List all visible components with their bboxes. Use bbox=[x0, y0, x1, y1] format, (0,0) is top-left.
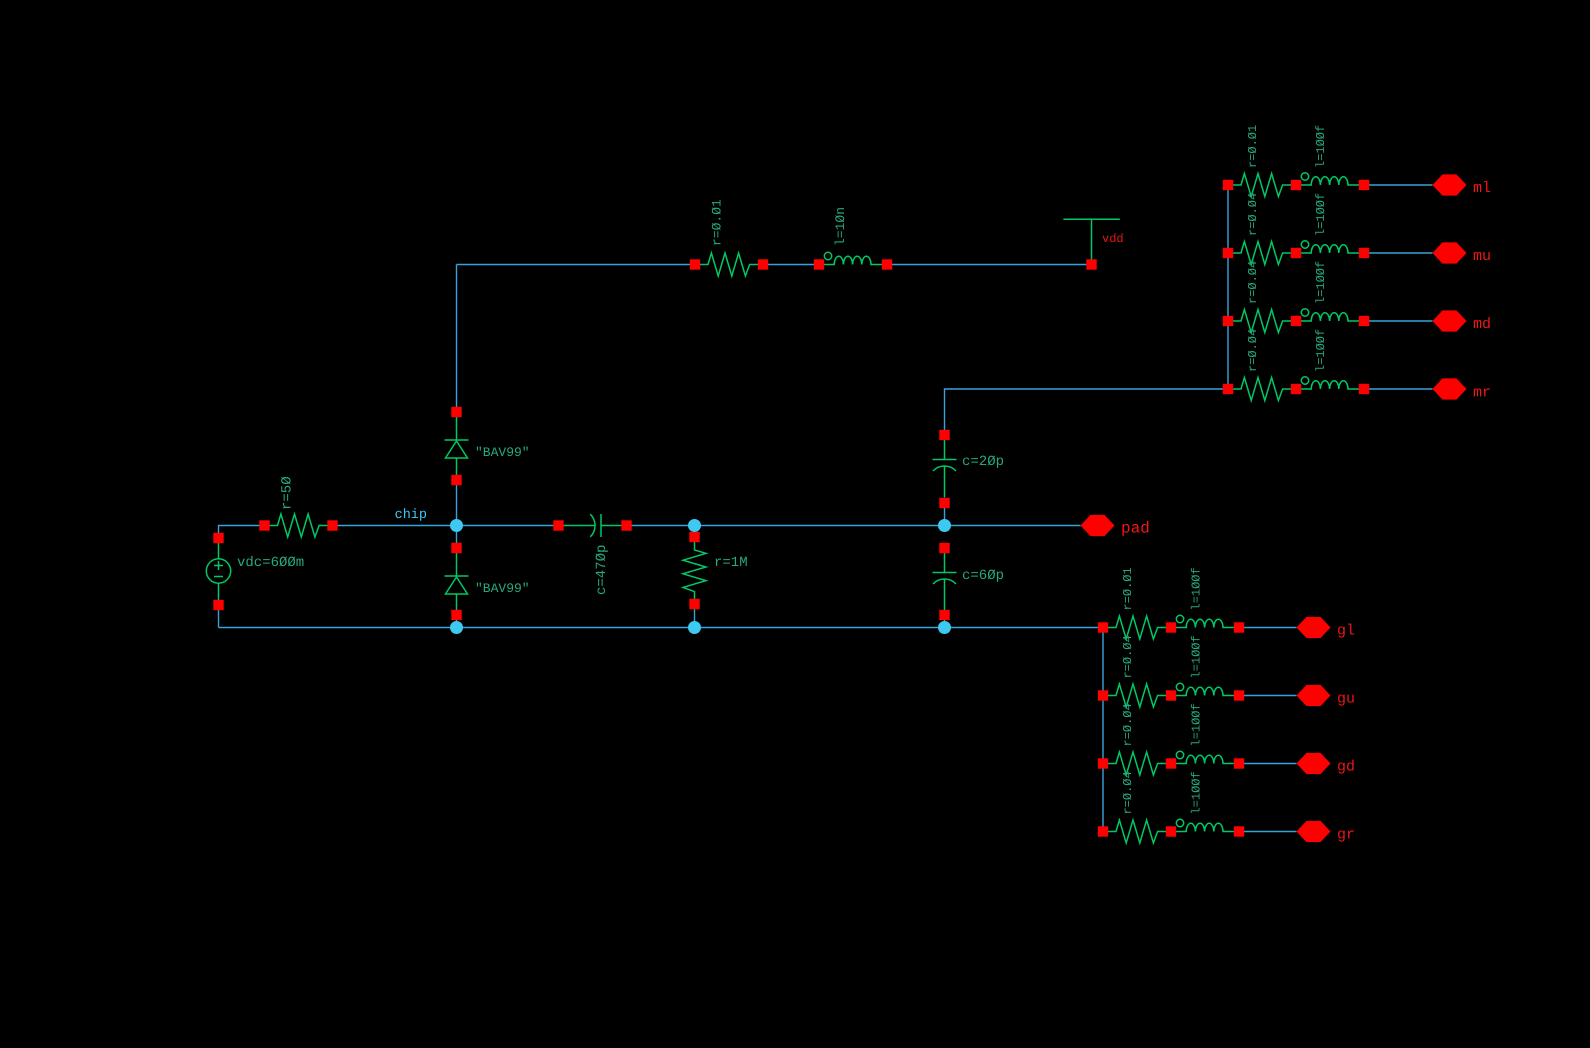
pin c470 left bbox=[553, 520, 563, 530]
pin diode2 top bbox=[451, 543, 461, 553]
pin mu right bbox=[1359, 248, 1369, 258]
pin gd mid bbox=[1166, 758, 1176, 768]
svg-text:c=47Øp: c=47Øp bbox=[594, 545, 610, 595]
svg-text:r=5Ø: r=5Ø bbox=[280, 476, 296, 510]
port gl bbox=[1297, 617, 1331, 638]
pin gd bus bbox=[1098, 758, 1108, 768]
svg-text:l=1ØØf: l=1ØØf bbox=[1314, 329, 1328, 372]
svg-text:l=1ØØf: l=1ØØf bbox=[1190, 635, 1204, 678]
svg-text:r=1M: r=1M bbox=[714, 555, 748, 571]
pin l10n right bbox=[882, 259, 892, 269]
inductor l=100f (mr) bbox=[1296, 377, 1364, 389]
node pad-gnd bbox=[938, 621, 951, 634]
svg-text:r=Ø.Ø4: r=Ø.Ø4 bbox=[1246, 261, 1260, 304]
wire top rail mid segment bbox=[763, 264, 819, 266]
wire ground rail bbox=[219, 627, 1104, 629]
wire mu row bbox=[1364, 252, 1433, 254]
pin r001 left bbox=[690, 259, 700, 269]
pin gu mid bbox=[1166, 690, 1176, 700]
wire c60p bottom to rail bbox=[944, 615, 946, 628]
port gd bbox=[1297, 753, 1331, 774]
svg-text:chip: chip bbox=[395, 508, 427, 523]
inductor l=10n (top rail) bbox=[819, 252, 887, 264]
port pad bbox=[1081, 515, 1115, 536]
pin gl bus bbox=[1098, 622, 1108, 632]
svg-text:r=Ø.Ø1: r=Ø.Ø1 bbox=[1121, 567, 1135, 610]
wire c470 to node2 to node3 bbox=[627, 525, 945, 527]
svg-text:r=Ø.Ø4: r=Ø.Ø4 bbox=[1246, 329, 1260, 372]
wire top rail right segment to vdd bbox=[887, 264, 1092, 266]
wire source top to r50 bbox=[219, 526, 265, 539]
node pad bbox=[938, 519, 951, 532]
svg-text:l=1ØØf: l=1ØØf bbox=[1314, 125, 1328, 168]
wire md row bbox=[1364, 320, 1433, 322]
pin diode1 bottom bbox=[451, 475, 461, 485]
pin r1M bottom bbox=[689, 599, 699, 609]
svg-text:ml: ml bbox=[1473, 180, 1491, 197]
svg-text:l=1ØØf: l=1ØØf bbox=[1314, 193, 1328, 236]
pin mr right bbox=[1359, 384, 1369, 394]
svg-text:md: md bbox=[1473, 316, 1491, 333]
node chip-gnd bbox=[450, 621, 463, 634]
pin ml bus bbox=[1223, 180, 1233, 190]
svg-text:pad: pad bbox=[1121, 520, 1150, 538]
pin diode2 bottom bbox=[451, 610, 461, 620]
pin md bus bbox=[1223, 316, 1233, 326]
pin source bottom bbox=[213, 600, 223, 610]
node chip bbox=[450, 519, 463, 532]
pin r50 right bbox=[327, 520, 337, 530]
svg-text:r=Ø.Ø4: r=Ø.Ø4 bbox=[1121, 703, 1135, 746]
m-bank row mr: resistor r=0.04 bbox=[1228, 378, 1296, 401]
inductor l=100f (mu) bbox=[1296, 241, 1364, 253]
wire m-bank bus bbox=[1227, 185, 1229, 389]
diode D2 BAV99 lower bbox=[445, 553, 469, 611]
svg-text:vdc=6ØØm: vdc=6ØØm bbox=[237, 555, 304, 571]
svg-text:gr: gr bbox=[1337, 827, 1355, 844]
svg-text:"BAV99": "BAV99" bbox=[475, 581, 530, 596]
wire gu row bbox=[1239, 695, 1297, 697]
wire gl row bbox=[1239, 627, 1297, 629]
voltage source V0 vdc=600m bbox=[206, 543, 230, 600]
inductor l=100f (gd) bbox=[1171, 751, 1239, 763]
port gu bbox=[1297, 685, 1331, 706]
svg-text:mu: mu bbox=[1473, 248, 1491, 265]
pin diode1 top bbox=[451, 407, 461, 417]
pin c20p bottom bbox=[939, 498, 949, 508]
inductor l=100f (ml) bbox=[1296, 173, 1364, 185]
port mu bbox=[1433, 242, 1467, 263]
svg-text:c=2Øp: c=2Øp bbox=[962, 454, 1004, 470]
g-bank row gd: resistor r=0.04 bbox=[1103, 752, 1171, 775]
port gr bbox=[1297, 821, 1331, 842]
pin gl mid bbox=[1166, 622, 1176, 632]
inductor l=100f (gl) bbox=[1171, 615, 1239, 627]
pin gr right bbox=[1234, 826, 1244, 836]
wire r1M bottom to rail bbox=[694, 604, 696, 628]
pin mr mid bbox=[1291, 384, 1301, 394]
wire source bottom to rail bbox=[218, 605, 220, 628]
port md bbox=[1433, 310, 1467, 331]
capacitor c=470p (series, horizontal) bbox=[559, 514, 627, 537]
g-bank row gr: resistor r=0.04 bbox=[1103, 820, 1171, 843]
pin mr bus bbox=[1223, 384, 1233, 394]
resistor r=0.01 (top rail) bbox=[695, 253, 763, 276]
vdd supply symbol bbox=[1063, 219, 1119, 260]
wire vdd branch vertical bbox=[456, 265, 458, 413]
wire c20p branch up and to m-bank bbox=[945, 389, 1229, 435]
pin mu bus bbox=[1223, 248, 1233, 258]
wire r50 to chip to c470 bbox=[333, 525, 559, 527]
pin r50 left bbox=[259, 520, 269, 530]
svg-text:l=1ØØf: l=1ØØf bbox=[1190, 771, 1204, 814]
svg-text:vdd: vdd bbox=[1102, 232, 1124, 246]
pin mu mid bbox=[1291, 248, 1301, 258]
m-bank row mu: resistor r=0.04 bbox=[1228, 242, 1296, 265]
svg-text:r=Ø.Ø1: r=Ø.Ø1 bbox=[710, 199, 725, 246]
wire node3 to pad bbox=[945, 525, 1081, 527]
wire ml row bbox=[1364, 184, 1433, 186]
svg-text:gl: gl bbox=[1337, 623, 1355, 640]
pin gr bus bbox=[1098, 826, 1108, 836]
port ml bbox=[1433, 174, 1467, 195]
pin source top bbox=[213, 533, 223, 543]
node n2 bbox=[688, 519, 701, 532]
svg-text:r=Ø.Ø4: r=Ø.Ø4 bbox=[1121, 635, 1135, 678]
pin c60p top bbox=[939, 543, 949, 553]
svg-text:"BAV99": "BAV99" bbox=[475, 445, 530, 460]
wire top rail left segment bbox=[457, 264, 696, 266]
pin r001 right bbox=[758, 259, 768, 269]
svg-text:l=1ØØf: l=1ØØf bbox=[1314, 261, 1328, 304]
resistor r=50 bbox=[265, 514, 333, 537]
wire lower diode to ground rail bbox=[456, 615, 458, 628]
pin ml mid bbox=[1291, 180, 1301, 190]
pin c20p top bbox=[939, 430, 949, 440]
wire gr row bbox=[1239, 831, 1297, 833]
capacitor c=20p (vertical) bbox=[933, 440, 957, 498]
svg-text:c=6Øp: c=6Øp bbox=[962, 568, 1004, 584]
pin ml right bbox=[1359, 180, 1369, 190]
pin md mid bbox=[1291, 316, 1301, 326]
pin gd right bbox=[1234, 758, 1244, 768]
resistor r=1M (vertical) bbox=[683, 537, 706, 605]
inductor l=100f (gu) bbox=[1171, 683, 1239, 695]
svg-text:l=1ØØf: l=1ØØf bbox=[1190, 703, 1204, 746]
svg-text:gu: gu bbox=[1337, 691, 1355, 708]
wire mr row bbox=[1364, 388, 1433, 390]
inductor l=100f (md) bbox=[1296, 309, 1364, 321]
pin c470 right bbox=[621, 520, 631, 530]
svg-text:gd: gd bbox=[1337, 759, 1355, 776]
svg-text:l=1ØØf: l=1ØØf bbox=[1190, 567, 1204, 610]
m-bank row md: resistor r=0.04 bbox=[1228, 310, 1296, 333]
diode D1 BAV99 upper bbox=[445, 417, 469, 475]
svg-text:l=1Øn: l=1Øn bbox=[833, 207, 848, 246]
port mr bbox=[1433, 378, 1467, 399]
pin r1M top bbox=[689, 532, 699, 542]
pin md right bbox=[1359, 316, 1369, 326]
node n2-gnd bbox=[688, 621, 701, 634]
svg-text:mr: mr bbox=[1473, 385, 1491, 402]
svg-text:r=Ø.Ø1: r=Ø.Ø1 bbox=[1246, 125, 1260, 168]
wire diode to chip node bbox=[456, 480, 458, 548]
pin c60p bottom bbox=[939, 610, 949, 620]
wire gd row bbox=[1239, 763, 1297, 765]
inductor l=100f (gr) bbox=[1171, 819, 1239, 831]
pin gl right bbox=[1234, 622, 1244, 632]
svg-text:r=Ø.Ø4: r=Ø.Ø4 bbox=[1246, 193, 1260, 236]
wire c20p bottom to node3 bbox=[944, 503, 946, 526]
capacitor c=60p (vertical) bbox=[933, 553, 957, 611]
pin gu right bbox=[1234, 690, 1244, 700]
pin gu bus bbox=[1098, 690, 1108, 700]
wire g-bank bus bbox=[1102, 628, 1104, 832]
pin gr mid bbox=[1166, 826, 1176, 836]
svg-text:r=Ø.Ø4: r=Ø.Ø4 bbox=[1121, 771, 1135, 814]
g-bank row gu: resistor r=0.04 bbox=[1103, 684, 1171, 707]
pin l10n left bbox=[814, 259, 824, 269]
pin vdd bbox=[1086, 259, 1096, 269]
